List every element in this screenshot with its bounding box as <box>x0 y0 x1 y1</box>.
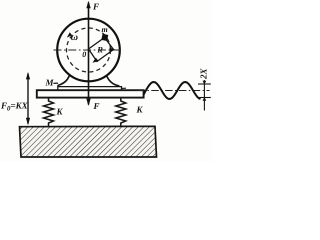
horizontal centerline <box>54 49 124 51</box>
motor base plate <box>58 85 122 90</box>
svg-text:M: M <box>45 78 55 88</box>
arrowhead F down <box>86 99 90 106</box>
ground block <box>20 126 157 157</box>
vertical force line <box>88 3 90 105</box>
svg-text:F: F <box>93 101 100 111</box>
motor left foot <box>58 75 70 85</box>
2X dimension <box>203 80 205 111</box>
spring K left <box>44 98 54 127</box>
svg-text:0: 0 <box>82 50 86 59</box>
svg-text:m: m <box>102 25 108 34</box>
svg-text:2X: 2X <box>199 68 209 81</box>
base lip right <box>122 87 127 89</box>
mass m square <box>101 34 108 41</box>
omega rotation arrowhead <box>67 32 72 37</box>
dashed rotor circle (path of m) <box>67 28 111 72</box>
svg-text:R: R <box>96 45 103 55</box>
arrowhead at C (right) <box>110 48 116 52</box>
vibration wave <box>144 82 201 99</box>
crank parallelogram 0-m-C-D <box>89 38 114 62</box>
motor housing circle <box>57 19 120 82</box>
platform slab M <box>37 90 144 97</box>
arrowhead at D (down-left) <box>92 58 98 63</box>
motor right foot <box>107 76 119 86</box>
svg-text:K: K <box>136 105 144 115</box>
arrowhead F up <box>86 1 90 8</box>
vibration wave midline <box>138 90 210 92</box>
dimension arrow F0=KX <box>27 74 29 124</box>
spring K right <box>116 98 126 127</box>
svg-text:F: F <box>92 2 99 12</box>
svg-text:K: K <box>56 107 64 117</box>
svg-text:ω: ω <box>71 32 78 43</box>
